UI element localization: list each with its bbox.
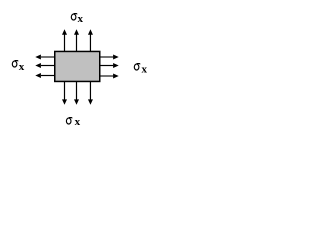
bottom arrow 2 [74,82,79,105]
left arrow 1 [35,55,54,60]
label sigma-x top [71,13,83,25]
right arrow 3 [100,74,119,79]
svg-text:x: x [75,116,81,128]
svg-text:x: x [19,61,25,73]
left arrow 2 [35,63,54,68]
top arrow 2 [74,29,79,52]
right arrow 2 [100,63,119,68]
label sigma-x bottom [66,116,80,128]
bottom arrow 3 [88,82,93,105]
right arrow 1 [100,55,119,60]
bottom arrow 1 [62,82,67,105]
left arrow 3 [35,73,54,78]
top arrow 3 [88,29,93,52]
svg-text:x: x [142,63,148,75]
label sigma-x left [12,61,24,74]
top arrow 1 [62,29,67,52]
stress element block [55,51,100,81]
svg-text:x: x [78,13,84,25]
label sigma-x right [134,63,147,75]
